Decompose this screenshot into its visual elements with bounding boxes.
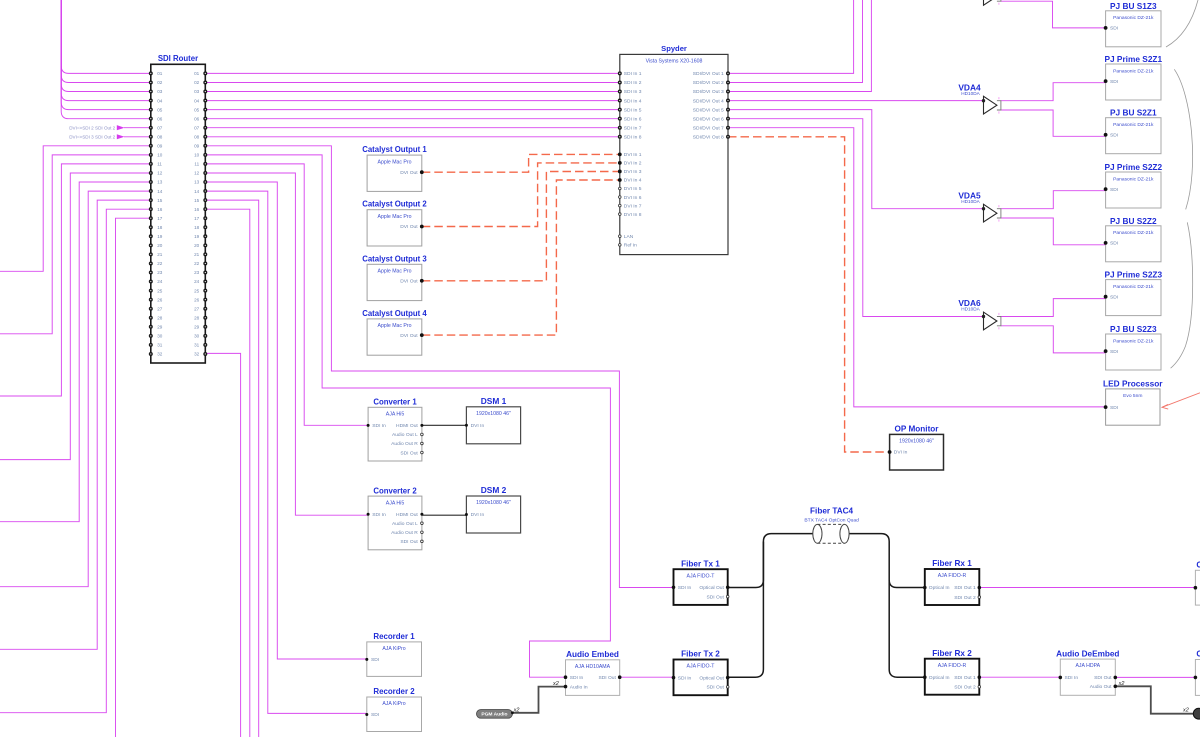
Converter 2 bbox=[368, 496, 422, 550]
wire router out 03 to Spyder SDI In 3 bbox=[205, 91, 620, 93]
svg-text:04: 04 bbox=[194, 98, 200, 103]
svg-text:07: 07 bbox=[157, 125, 163, 130]
wire router out 08 to Spyder SDI In 8 bbox=[205, 136, 620, 138]
wire fiber trunk left side to Fiber Tx 2 Optical Out bbox=[728, 534, 813, 678]
svg-text:AJA FIDO-R: AJA FIDO-R bbox=[938, 663, 967, 669]
projector PJ Prime S2Z3 bbox=[1106, 280, 1161, 316]
svg-text:x2: x2 bbox=[1118, 681, 1125, 687]
projector PJ BU S2Z1 bbox=[1106, 118, 1161, 154]
Catalyst Output 1 bbox=[367, 155, 422, 191]
svg-text:SDI: SDI bbox=[1110, 241, 1118, 247]
svg-text:Catalyst Output 3: Catalyst Output 3 bbox=[362, 254, 427, 263]
svg-text:HD10DA: HD10DA bbox=[961, 91, 980, 96]
svg-text:SDI: SDI bbox=[371, 712, 379, 718]
node DVI=>SDI 2 SDI Out 2 bbox=[124, 127, 151, 129]
wire VDA4 out B to PJ BU S2Z1 SDI bbox=[1001, 110, 1106, 136]
svg-text:09: 09 bbox=[157, 144, 163, 149]
OP Monitor bbox=[890, 434, 944, 470]
svg-text:27: 27 bbox=[157, 306, 163, 311]
wire feed into router port 03 bbox=[61, 0, 151, 92]
wire router out 15 to canvas bottom bbox=[205, 200, 258, 737]
svg-text:DVI In: DVI In bbox=[471, 423, 485, 429]
svg-text:AJA Hi5: AJA Hi5 bbox=[386, 412, 405, 418]
wire feed into router port 05 bbox=[61, 0, 151, 110]
wire router left port 14 to canvas left edge bbox=[0, 191, 151, 587]
wire Converter 1 HDMI Out to DSM 1 DVI In bbox=[422, 424, 467, 426]
wire Audio Embed SDI Out to Fiber Tx 2 SDI In bbox=[620, 676, 674, 678]
svg-text:Apple Mac Pro: Apple Mac Pro bbox=[377, 323, 411, 329]
svg-text:SDI In 7: SDI In 7 bbox=[624, 125, 642, 131]
projector PJ BU S2Z2 bbox=[1106, 226, 1161, 262]
svg-text:SDI/DVI Out 2: SDI/DVI Out 2 bbox=[693, 80, 724, 86]
wire router out 06 to Spyder SDI In 6 bbox=[205, 118, 620, 120]
wire feed into router port 01 bbox=[61, 0, 151, 73]
svg-text:23: 23 bbox=[157, 270, 163, 275]
PGM Audio source pill bbox=[477, 710, 513, 719]
wire router left port 09 to canvas left edge bbox=[0, 146, 151, 271]
svg-text:Audio Out: Audio Out bbox=[1090, 684, 1112, 690]
wire feed into router port 06 bbox=[61, 0, 151, 119]
svg-text:14: 14 bbox=[157, 189, 163, 194]
svg-text:Converter 2: Converter 2 bbox=[373, 486, 417, 495]
svg-text:25: 25 bbox=[157, 288, 163, 293]
svg-text:Optical Out: Optical Out bbox=[699, 585, 724, 591]
svg-text:SDI: SDI bbox=[1110, 405, 1118, 411]
svg-text:02: 02 bbox=[157, 80, 163, 85]
svg-text:SDI Out: SDI Out bbox=[400, 450, 418, 456]
svg-text:DVI Out: DVI Out bbox=[400, 170, 418, 176]
svg-text:PJ BU S2Z2: PJ BU S2Z2 bbox=[1110, 216, 1157, 226]
svg-text:Ref In: Ref In bbox=[624, 243, 637, 249]
svg-text:SDI: SDI bbox=[371, 657, 379, 663]
svg-text:AJA KiPro: AJA KiPro bbox=[382, 701, 405, 707]
svg-text:AJA FIDO-R: AJA FIDO-R bbox=[938, 573, 967, 579]
svg-text:x2: x2 bbox=[552, 681, 559, 687]
red annotation arrow to LED Processor bbox=[1162, 393, 1200, 408]
svg-text:Apple Mac Pro: Apple Mac Pro bbox=[377, 159, 411, 165]
svg-text:08: 08 bbox=[194, 134, 200, 139]
svg-text:09: 09 bbox=[194, 144, 200, 149]
wire router left port 11 to canvas left edge bbox=[0, 164, 151, 396]
svg-text:DVI In 2: DVI In 2 bbox=[624, 161, 642, 167]
projector PJ Prime S2Z2 bbox=[1106, 172, 1161, 208]
svg-text:18: 18 bbox=[194, 225, 200, 230]
svg-text:19: 19 bbox=[157, 234, 163, 239]
svg-text:31: 31 bbox=[194, 343, 200, 348]
wire router out 07 to Spyder SDI In 7 bbox=[205, 127, 620, 129]
svg-text:Audio In: Audio In bbox=[570, 684, 588, 690]
svg-text:SDI Router: SDI Router bbox=[158, 54, 198, 63]
svg-text:07: 07 bbox=[194, 125, 200, 130]
wire Catalyst 3 DVI Out to Spyder DVI In 3 (DVI dashed) bbox=[422, 172, 620, 281]
svg-text:SDI/DVI Out 6: SDI/DVI Out 6 bbox=[693, 116, 724, 122]
svg-text:Optical In: Optical In bbox=[929, 675, 950, 681]
Spyder video processor bbox=[620, 54, 728, 254]
cut-off box right edge (Fiber Rx1 dest) bbox=[1195, 570, 1200, 605]
svg-text:12: 12 bbox=[157, 171, 163, 176]
svg-text:Fiber Rx 1: Fiber Rx 1 bbox=[932, 559, 972, 568]
svg-text:DVI=>SDI 2 SDI Out 2: DVI=>SDI 2 SDI Out 2 bbox=[69, 125, 115, 130]
svg-text:03: 03 bbox=[194, 89, 200, 94]
svg-text:SDI Out 2: SDI Out 2 bbox=[954, 595, 976, 601]
wire VDA6 out A to PJ Prime S2Z3 SDI bbox=[1001, 299, 1106, 317]
wire router out 14 to Recorder 2 SDI bbox=[205, 191, 366, 713]
wire Converter 2 HDMI Out to DSM 2 DVI In bbox=[422, 514, 467, 516]
svg-text:SDI In: SDI In bbox=[372, 512, 386, 518]
wire feed into router port 04 bbox=[61, 0, 151, 101]
svg-text:SDI Out 1: SDI Out 1 bbox=[954, 675, 976, 681]
svg-text:20: 20 bbox=[194, 243, 200, 248]
svg-text:DVI Out: DVI Out bbox=[400, 279, 418, 285]
svg-text:29: 29 bbox=[157, 325, 163, 330]
svg-text:Optical Out: Optical Out bbox=[699, 675, 724, 681]
speaker symbol (cut at right edge) bbox=[1193, 708, 1200, 719]
svg-text:Audio Out R: Audio Out R bbox=[391, 530, 418, 536]
svg-text:SDI In 6: SDI In 6 bbox=[624, 116, 642, 122]
svg-text:08: 08 bbox=[157, 134, 163, 139]
svg-text:PJ BU S1Z3: PJ BU S1Z3 bbox=[1110, 1, 1157, 11]
svg-text:1920x1080 46": 1920x1080 46" bbox=[476, 500, 511, 506]
svg-text:24: 24 bbox=[157, 279, 163, 284]
svg-text:Catalyst Output 4: Catalyst Output 4 bbox=[362, 309, 427, 318]
projector PJ BU S2Z3 bbox=[1106, 334, 1161, 370]
svg-text:16: 16 bbox=[157, 207, 163, 212]
svg-text:15: 15 bbox=[157, 198, 163, 203]
svg-text:Fiber TAC4: Fiber TAC4 bbox=[810, 507, 854, 516]
svg-text:DVI In: DVI In bbox=[894, 450, 908, 456]
svg-text:Audio DeEmbed: Audio DeEmbed bbox=[1056, 649, 1119, 658]
svg-text:20: 20 bbox=[157, 243, 163, 248]
svg-text:DVI In 8: DVI In 8 bbox=[624, 212, 642, 218]
svg-text:SDI Out 2: SDI Out 2 bbox=[954, 685, 976, 691]
svg-text:DVI=>SDI 3 SDI Out 2: DVI=>SDI 3 SDI Out 2 bbox=[69, 134, 115, 139]
svg-text:Panasonic DZ-21k: Panasonic DZ-21k bbox=[1113, 338, 1154, 344]
svg-text:Panasonic DZ-21k: Panasonic DZ-21k bbox=[1113, 284, 1154, 290]
svg-text:HDMI Out: HDMI Out bbox=[396, 423, 418, 429]
wire Fiber Rx 1 SDI Out 1 to right-edge device bbox=[979, 587, 1195, 589]
wire Catalyst 2 DVI Out to Spyder DVI In 2 (DVI dashed) bbox=[422, 163, 620, 227]
wire Audio DeEmbed SDI Out to right-edge device bbox=[1115, 676, 1195, 678]
wire fiber trunk right side to Fiber Rx 2 Optical In bbox=[849, 534, 925, 678]
svg-text:SDI Out: SDI Out bbox=[706, 685, 724, 691]
svg-text:HD10DA: HD10DA bbox=[961, 307, 980, 312]
wire VDA3 out to PJ BU S1Z3 SDI bbox=[1001, 1, 1106, 28]
svg-text:DVI In 6: DVI In 6 bbox=[624, 195, 642, 201]
wire Catalyst 1 DVI Out to Spyder DVI In 1 (DVI dashed) bbox=[422, 154, 620, 172]
Fiber Tx 1 bbox=[674, 569, 728, 605]
wire Spyder out 5 to VDA5 input bbox=[728, 110, 984, 209]
svg-text:SDI In 3: SDI In 3 bbox=[624, 89, 642, 95]
svg-text:AJA HDPA: AJA HDPA bbox=[1075, 663, 1100, 669]
wire router out 13 to Recorder 1 SDI bbox=[205, 182, 366, 659]
svg-text:Spyder: Spyder bbox=[661, 44, 687, 53]
svg-text:Recorder 2: Recorder 2 bbox=[373, 687, 415, 696]
svg-text:1920x1080 46": 1920x1080 46" bbox=[899, 439, 934, 445]
svg-text:C: C bbox=[1196, 650, 1200, 659]
wire router left port 17 to canvas bottom edge bbox=[116, 218, 151, 737]
svg-text:SDI: SDI bbox=[1110, 26, 1118, 32]
svg-text:PJ BU S2Z1: PJ BU S2Z1 bbox=[1110, 108, 1157, 118]
svg-text:LED Processor: LED Processor bbox=[1103, 378, 1163, 388]
svg-text:AJA Hi5: AJA Hi5 bbox=[386, 500, 405, 506]
svg-text:19: 19 bbox=[194, 234, 200, 239]
wire Spyder out 6 to VDA6 input bbox=[728, 119, 984, 317]
svg-text:DVI In 7: DVI In 7 bbox=[624, 203, 642, 209]
svg-text:17: 17 bbox=[157, 216, 163, 221]
wire Fiber Rx 2 SDI Out 1 to Audio DeEmbed SDI In bbox=[979, 676, 1060, 678]
svg-text:SDI: SDI bbox=[1110, 294, 1118, 300]
wire Spyder out 3 to canvas top (VDA3) bbox=[728, 0, 871, 92]
svg-text:BTX TAC4 OptCon Quad: BTX TAC4 OptCon Quad bbox=[804, 517, 859, 523]
svg-text:13: 13 bbox=[157, 180, 163, 185]
svg-text:32: 32 bbox=[157, 352, 163, 357]
wire Catalyst 4 DVI Out to Spyder DVI In 4 (DVI dashed) bbox=[422, 180, 620, 335]
svg-text:x2: x2 bbox=[513, 707, 520, 713]
wire Spyder out 8 (DVI dashed) to OP Monitor bbox=[728, 137, 890, 452]
svg-text:DVI In 3: DVI In 3 bbox=[624, 169, 642, 175]
Catalyst Output 2 bbox=[367, 210, 422, 246]
wire router out 02 to Spyder SDI In 2 bbox=[205, 82, 620, 84]
svg-text:SDI/DVI Out 1: SDI/DVI Out 1 bbox=[693, 71, 724, 77]
wire router out 32 to canvas bottom bbox=[205, 353, 240, 737]
wire router out 01 to Spyder SDI In 1 bbox=[205, 72, 620, 74]
svg-text:AJA FIDO-T: AJA FIDO-T bbox=[687, 573, 716, 579]
svg-text:12: 12 bbox=[194, 171, 200, 176]
VDA3 distribution amp bbox=[984, 0, 997, 5]
svg-text:30: 30 bbox=[194, 334, 200, 339]
svg-text:SDI/DVI Out 5: SDI/DVI Out 5 bbox=[693, 107, 724, 113]
wire VDA6 out B to PJ BU S2Z3 SDI bbox=[1001, 326, 1106, 353]
svg-text:x2: x2 bbox=[1182, 708, 1189, 714]
svg-text:15: 15 bbox=[194, 198, 200, 203]
svg-text:01: 01 bbox=[157, 71, 163, 76]
wire VDA5 out B to PJ BU S2Z2 SDI bbox=[1001, 218, 1106, 245]
wire router out 04 to Spyder SDI In 4 bbox=[205, 100, 620, 102]
wire Spyder out 7 to LED Processor SDI bbox=[728, 128, 1106, 407]
svg-text:Recorder 1: Recorder 1 bbox=[373, 632, 415, 641]
wire router out 09 to Fiber Tx 1 SDI In bbox=[205, 146, 673, 588]
svg-text:26: 26 bbox=[194, 297, 200, 302]
svg-text:HD10DA: HD10DA bbox=[961, 199, 980, 204]
svg-text:HDMI Out: HDMI Out bbox=[396, 512, 418, 518]
svg-text:Fiber Tx 1: Fiber Tx 1 bbox=[681, 559, 720, 568]
svg-text:SDI In: SDI In bbox=[678, 675, 692, 681]
wire Audio DeEmbed Audio Out to speaker (x2) bbox=[1115, 686, 1193, 713]
svg-text:AJA FIDO-T: AJA FIDO-T bbox=[687, 664, 716, 670]
svg-text:DSM 2: DSM 2 bbox=[481, 485, 507, 495]
svg-text:06: 06 bbox=[194, 116, 200, 121]
svg-text:DSM 1: DSM 1 bbox=[481, 396, 507, 406]
svg-text:Apple Mac Pro: Apple Mac Pro bbox=[377, 214, 411, 220]
svg-text:16: 16 bbox=[194, 207, 200, 212]
svg-text:03: 03 bbox=[157, 89, 163, 94]
wire Spyder out 1 to canvas top (VDA1) bbox=[728, 0, 854, 73]
svg-text:Audio Out R: Audio Out R bbox=[391, 441, 418, 447]
svg-text:LAN: LAN bbox=[624, 234, 634, 240]
svg-text:17: 17 bbox=[194, 216, 200, 221]
svg-text:Panasonic DZ-21k: Panasonic DZ-21k bbox=[1113, 15, 1154, 21]
wire Spyder out 4 to VDA4 input bbox=[728, 100, 984, 102]
svg-text:SDI In 5: SDI In 5 bbox=[624, 107, 642, 113]
projector PJ BU S1Z3 bbox=[1106, 11, 1161, 47]
svg-text:Apple Mac Pro: Apple Mac Pro bbox=[377, 269, 411, 275]
svg-text:28: 28 bbox=[157, 315, 163, 320]
svg-text:DVI In 1: DVI In 1 bbox=[624, 152, 642, 158]
Audio DeEmbed (AJA HDPA) bbox=[1060, 659, 1115, 695]
wire feed into router port 02 bbox=[61, 0, 151, 83]
Fiber Tx 2 bbox=[674, 660, 728, 696]
svg-text:SDI Out: SDI Out bbox=[706, 594, 724, 600]
svg-text:SDI: SDI bbox=[1110, 187, 1118, 193]
svg-text:Evo 5nm: Evo 5nm bbox=[1123, 393, 1142, 399]
svg-text:PGM Audio: PGM Audio bbox=[481, 712, 507, 718]
Fiber Rx 1 bbox=[925, 569, 980, 605]
svg-text:11: 11 bbox=[157, 162, 162, 167]
svg-text:AJA HD10AMA: AJA HD10AMA bbox=[575, 664, 611, 670]
svg-text:SDI In 1: SDI In 1 bbox=[624, 71, 642, 77]
svg-text:29: 29 bbox=[194, 325, 200, 330]
svg-text:Audio Embed: Audio Embed bbox=[566, 650, 619, 659]
svg-text:DVI Out: DVI Out bbox=[400, 224, 418, 230]
svg-text:05: 05 bbox=[194, 107, 200, 112]
svg-text:21: 21 bbox=[157, 252, 163, 257]
svg-text:Catalyst Output 1: Catalyst Output 1 bbox=[362, 145, 427, 154]
svg-text:DVI In 5: DVI In 5 bbox=[624, 186, 642, 192]
svg-text:SDI Out: SDI Out bbox=[1094, 675, 1112, 681]
svg-text:04: 04 bbox=[157, 98, 163, 103]
svg-text:SDI Out 1: SDI Out 1 bbox=[954, 585, 976, 591]
svg-text:AJA KiPro: AJA KiPro bbox=[382, 646, 405, 652]
svg-text:Panasonic DZ-21k: Panasonic DZ-21k bbox=[1113, 230, 1154, 236]
cut-off box right edge (DeEmbed dest) bbox=[1195, 660, 1200, 696]
wire router out 11 to Converter 1 SDI In bbox=[205, 164, 368, 425]
svg-text:DVI In 4: DVI In 4 bbox=[624, 178, 642, 184]
projector PJ Prime S2Z1 bbox=[1106, 64, 1161, 100]
svg-text:SDI/DVI Out 8: SDI/DVI Out 8 bbox=[693, 134, 724, 140]
svg-text:02: 02 bbox=[194, 80, 200, 85]
Recorder 2 bbox=[367, 697, 422, 732]
Catalyst Output 4 bbox=[367, 319, 422, 355]
svg-text:01: 01 bbox=[194, 71, 200, 76]
cable-group arcs right edge bbox=[1166, 0, 1198, 47]
wire fiber trunk branch to Fiber Rx 1 Optical In bbox=[889, 580, 925, 588]
svg-text:Optical In: Optical In bbox=[929, 585, 950, 591]
svg-text:PJ BU S2Z3: PJ BU S2Z3 bbox=[1110, 324, 1157, 334]
svg-text:SDI In: SDI In bbox=[678, 585, 692, 591]
Converter 1 bbox=[368, 407, 422, 461]
svg-text:C: C bbox=[1196, 560, 1200, 569]
DSM 2 bbox=[466, 496, 520, 533]
wire VDA5 out A to PJ Prime S2Z2 SDI bbox=[1001, 191, 1106, 209]
wire router left port 10 to canvas left edge bbox=[0, 155, 151, 334]
svg-text:23: 23 bbox=[194, 270, 200, 275]
wire Spyder out 2 to canvas top (VDA2) bbox=[728, 0, 863, 83]
svg-text:OP Monitor: OP Monitor bbox=[895, 425, 940, 434]
wire router out 05 to Spyder SDI In 5 bbox=[205, 109, 620, 111]
svg-text:22: 22 bbox=[194, 261, 200, 266]
svg-text:Catalyst Output 2: Catalyst Output 2 bbox=[362, 200, 427, 209]
wire router out 10 to Audio Embed SDI In bbox=[205, 155, 610, 677]
svg-text:14: 14 bbox=[194, 189, 200, 194]
svg-text:Audio Out L: Audio Out L bbox=[392, 432, 418, 438]
svg-text:21: 21 bbox=[194, 252, 200, 257]
svg-text:Audio Out L: Audio Out L bbox=[392, 521, 418, 527]
svg-text:SDI/DVI Out 3: SDI/DVI Out 3 bbox=[693, 89, 724, 95]
svg-text:06: 06 bbox=[157, 116, 163, 121]
wire router left port 13 to canvas left edge bbox=[0, 182, 151, 522]
svg-text:Fiber Tx 2: Fiber Tx 2 bbox=[681, 650, 720, 659]
svg-text:30: 30 bbox=[157, 334, 163, 339]
svg-text:27: 27 bbox=[194, 306, 200, 311]
svg-text:10: 10 bbox=[157, 153, 163, 158]
svg-text:SDI In: SDI In bbox=[372, 423, 386, 429]
svg-text:22: 22 bbox=[157, 261, 163, 266]
svg-text:13: 13 bbox=[194, 180, 200, 185]
svg-text:SDI Out: SDI Out bbox=[400, 539, 418, 545]
SDI Router U1 bbox=[151, 64, 206, 363]
svg-text:26: 26 bbox=[157, 297, 163, 302]
svg-text:SDI/DVI Out 7: SDI/DVI Out 7 bbox=[693, 125, 724, 131]
svg-text:Converter 1: Converter 1 bbox=[373, 398, 417, 407]
svg-text:SDI In 8: SDI In 8 bbox=[624, 134, 642, 140]
svg-text:Panasonic DZ-21k: Panasonic DZ-21k bbox=[1113, 122, 1154, 128]
svg-text:SDI: SDI bbox=[1110, 79, 1118, 85]
svg-text:PJ Prime S2Z3: PJ Prime S2Z3 bbox=[1104, 270, 1162, 280]
LED Processor bbox=[1106, 389, 1160, 425]
wire Fiber Tx 1 Optical Out into trunk bbox=[728, 542, 764, 588]
svg-text:PJ Prime S2Z2: PJ Prime S2Z2 bbox=[1104, 162, 1162, 172]
svg-text:32: 32 bbox=[194, 352, 200, 357]
wire router left port 15 to canvas left edge bbox=[0, 200, 151, 649]
svg-text:SDI: SDI bbox=[1110, 349, 1118, 355]
svg-text:SDI In: SDI In bbox=[1065, 675, 1079, 681]
Fiber Rx 2 bbox=[925, 659, 980, 695]
svg-text:11: 11 bbox=[194, 162, 199, 167]
svg-text:Panasonic DZ-21k: Panasonic DZ-21k bbox=[1113, 176, 1154, 182]
svg-text:25: 25 bbox=[194, 288, 200, 293]
svg-text:28: 28 bbox=[194, 315, 200, 320]
Catalyst Output 3 bbox=[367, 264, 422, 300]
wire router out 16 to canvas bottom bbox=[205, 209, 250, 737]
svg-text:1920x1080 46": 1920x1080 46" bbox=[476, 411, 511, 417]
svg-text:18: 18 bbox=[157, 225, 163, 230]
svg-text:DVI Out: DVI Out bbox=[400, 333, 418, 339]
svg-text:DVI In: DVI In bbox=[471, 512, 485, 518]
wire PGM Audio to Audio Embed Audio In (x2) bbox=[512, 687, 565, 713]
svg-text:Vista Systems X20-1608: Vista Systems X20-1608 bbox=[646, 58, 703, 64]
wire VDA4 out A to PJ Prime S2Z1 SDI bbox=[1001, 83, 1106, 101]
wire router out 12 to Converter 2 SDI In bbox=[205, 173, 368, 515]
svg-text:SDI In 2: SDI In 2 bbox=[624, 80, 642, 86]
svg-text:SDI In: SDI In bbox=[570, 675, 584, 681]
svg-text:31: 31 bbox=[157, 343, 163, 348]
svg-text:Panasonic DZ-21k: Panasonic DZ-21k bbox=[1113, 68, 1154, 74]
svg-text:PJ Prime S2Z1: PJ Prime S2Z1 bbox=[1104, 54, 1162, 64]
svg-text:10: 10 bbox=[194, 153, 200, 158]
Audio Embed (AJA HD10AMA) bbox=[566, 660, 620, 696]
svg-text:Fiber Rx 2: Fiber Rx 2 bbox=[932, 649, 972, 658]
Recorder 1 bbox=[367, 642, 422, 677]
svg-text:24: 24 bbox=[194, 279, 200, 284]
svg-text:SDI Out: SDI Out bbox=[598, 675, 616, 681]
wire router left port 16 to canvas left edge bbox=[0, 209, 151, 713]
wire router left port 12 to canvas left edge bbox=[0, 173, 151, 460]
svg-text:SDI/DVI Out 4: SDI/DVI Out 4 bbox=[693, 98, 724, 104]
svg-text:05: 05 bbox=[157, 107, 163, 112]
DSM 1 bbox=[466, 407, 520, 444]
svg-text:SDI: SDI bbox=[1110, 133, 1118, 139]
svg-text:SDI In 4: SDI In 4 bbox=[624, 98, 642, 104]
